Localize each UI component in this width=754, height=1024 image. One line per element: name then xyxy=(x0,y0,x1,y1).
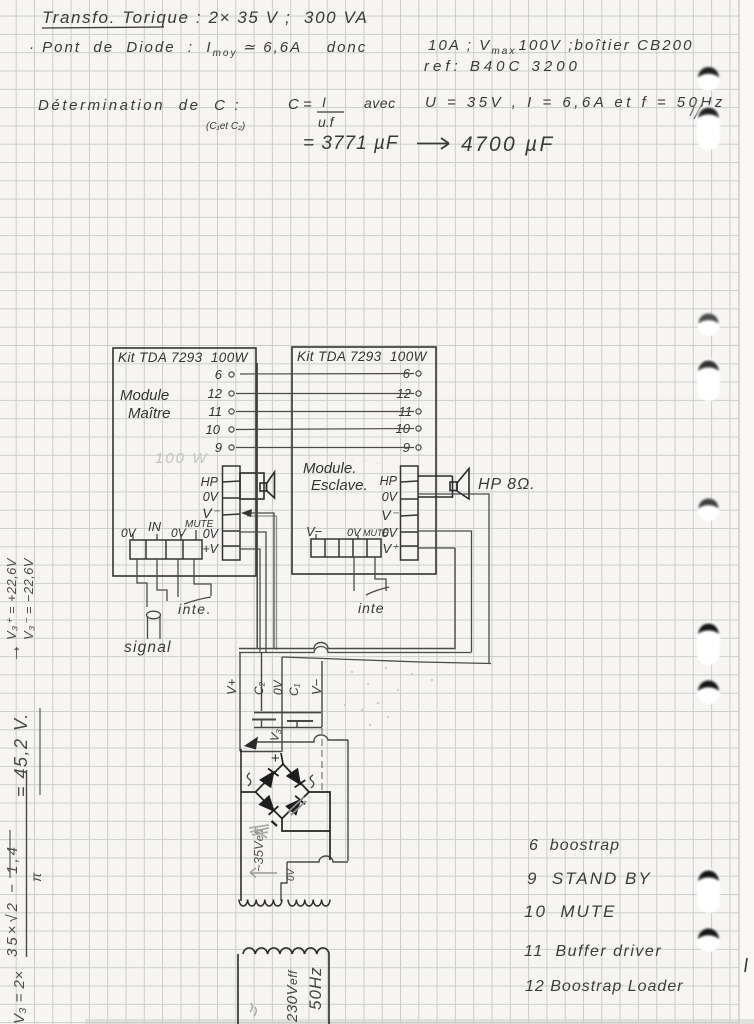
svg-text:Module: Module xyxy=(120,387,169,404)
svg-text:Transfo. Torique : 2× 35 V ;: Transfo. Torique : 2× 35 V ; 300 VA xyxy=(42,8,368,27)
svg-text:(C₁et C₂): (C₁et C₂) xyxy=(206,121,245,132)
svg-text:Maître: Maître xyxy=(128,405,171,422)
svg-text:inte: inte xyxy=(358,600,385,616)
svg-text:50Hz: 50Hz xyxy=(306,966,325,1010)
svg-text:u.f: u.f xyxy=(318,114,336,130)
svg-text:signal: signal xyxy=(124,639,172,656)
svg-text:C =: C = xyxy=(288,96,312,113)
svg-text:π: π xyxy=(28,872,44,882)
svg-text:+V: +V xyxy=(202,542,219,556)
svg-text:0V: 0V xyxy=(121,526,137,540)
svg-text:avec: avec xyxy=(364,95,396,111)
svg-text:Esclave.: Esclave. xyxy=(311,477,368,494)
svg-text:11 Buffer driver: 11 Buffer driver xyxy=(524,943,662,960)
svg-text:12 Boostrap Loader: 12 Boostrap Loader xyxy=(525,978,684,995)
svg-text:0V: 0V xyxy=(286,867,297,881)
svg-text:11: 11 xyxy=(209,404,223,419)
svg-text:= 3771 µF: = 3771 µF xyxy=(303,133,399,154)
svg-text:230Veff: 230Veff xyxy=(284,969,301,1023)
svg-text:0V: 0V xyxy=(203,490,220,504)
svg-text:· · .: · · . xyxy=(350,453,383,467)
svg-text:Kit TDA 7293 100W: Kit TDA 7293 100W xyxy=(297,349,428,364)
svg-text:ref: B40C 3200: ref: B40C 3200 xyxy=(424,58,581,75)
svg-text:35×√2 − 1,4: 35×√2 − 1,4 xyxy=(4,844,21,957)
svg-text:100 W: 100 W xyxy=(155,450,208,467)
svg-text:C₁: C₁ xyxy=(287,683,301,696)
svg-text:Kit TDA 7293 100W: Kit TDA 7293 100W xyxy=(118,350,249,365)
svg-text:HP 8Ω.: HP 8Ω. xyxy=(478,476,536,493)
svg-text:6: 6 xyxy=(215,367,223,382)
svg-text:I: I xyxy=(322,94,326,110)
svg-text:V₃: V₃ xyxy=(267,727,283,742)
svg-text:MUTE: MUTE xyxy=(363,528,389,538)
svg-text:inte.: inte. xyxy=(178,601,212,617)
svg-text:10 MUTE: 10 MUTE xyxy=(524,902,617,921)
svg-text:→: → xyxy=(3,643,25,663)
svg-text:+: + xyxy=(271,750,280,767)
svg-text:V⁺: V⁺ xyxy=(382,541,399,556)
svg-text:HP: HP xyxy=(380,474,398,488)
svg-text:V₃ = 2×: V₃ = 2× xyxy=(11,970,28,1024)
svg-text:V−: V− xyxy=(309,678,324,695)
svg-text:9: 9 xyxy=(215,440,222,455)
svg-text:U = 35V , I = 6,6A et f = 50Hz: U = 35V , I = 6,6A et f = 50Hz xyxy=(425,94,726,111)
svg-text:IN: IN xyxy=(148,519,162,534)
svg-text:MUTE: MUTE xyxy=(185,519,214,530)
svg-text:Détermination de C :: Détermination de C : xyxy=(38,97,241,114)
svg-text:V₃⁺ = +22,6V: V₃⁺ = +22,6V xyxy=(4,557,19,640)
svg-text:12: 12 xyxy=(208,386,223,401)
svg-text:HP: HP xyxy=(201,475,219,489)
svg-text:6 boostrap: 6 boostrap xyxy=(529,837,620,854)
svg-text:V+: V+ xyxy=(224,678,239,695)
svg-text:0V: 0V xyxy=(271,679,285,695)
svg-text:V⁻: V⁻ xyxy=(381,507,399,523)
svg-text:10: 10 xyxy=(206,422,221,437)
svg-text:Module.: Module. xyxy=(303,460,356,477)
svg-text:0V: 0V xyxy=(347,527,362,539)
svg-text:C₂: C₂ xyxy=(252,681,266,695)
svg-text:4700 µF: 4700 µF xyxy=(461,133,555,156)
svg-text:0V: 0V xyxy=(382,490,399,504)
svg-text:V₃⁻ = −22,6V: V₃⁻ = −22,6V xyxy=(21,557,36,640)
svg-text:V−: V− xyxy=(306,524,323,539)
svg-text:= 45,2 V.: = 45,2 V. xyxy=(11,712,31,797)
svg-text:9 STAND BY: 9 STAND BY xyxy=(527,869,652,888)
